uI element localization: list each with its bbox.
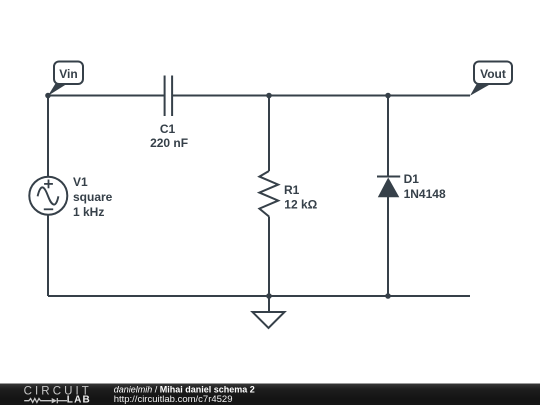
resistor R1 — [259, 171, 278, 217]
svg-text:danielmih / Mihai daniel schem: danielmih / Mihai daniel schema 2 — [114, 384, 255, 394]
voltage source V1 — [29, 177, 67, 215]
svg-text:Vout: Vout — [480, 67, 506, 81]
svg-text:D1: D1 — [404, 172, 420, 186]
wire: D1 top lead — [387, 96, 389, 177]
svg-text:12 kΩ: 12 kΩ — [284, 198, 317, 212]
wire: C1 right plate to Vout corner — [172, 95, 470, 97]
node: R1 top junction — [266, 93, 272, 99]
CircuitLab logo: squiggle resistor + diode — [24, 398, 67, 403]
svg-text:C1: C1 — [160, 122, 176, 136]
svg-text:V1: V1 — [73, 175, 88, 189]
svg-text:Vin: Vin — [59, 67, 77, 81]
capacitor C1 — [165, 76, 173, 117]
svg-text:LAB: LAB — [67, 395, 91, 405]
wire: V1 bottom down to bottom rail — [47, 215, 49, 297]
node: Vin junction — [45, 93, 51, 99]
node: R1 bottom junction — [266, 293, 272, 299]
svg-text:1 kHz: 1 kHz — [73, 205, 104, 219]
net flag Vin — [48, 62, 83, 96]
wire: bottom rail — [48, 295, 470, 297]
svg-text:square: square — [73, 190, 113, 204]
diode D1 — [377, 177, 400, 198]
wire: Vin node down to V1 top — [47, 96, 49, 178]
wire: Vin node to C1 left plate — [48, 95, 165, 97]
svg-text:1N4148: 1N4148 — [404, 187, 446, 201]
node: D1 top junction — [385, 93, 391, 99]
net flag Vout — [470, 62, 512, 96]
ground — [253, 296, 285, 328]
wire: D1 bottom lead — [387, 197, 389, 296]
svg-text:R1: R1 — [284, 183, 300, 197]
wire: R1 bottom lead — [268, 217, 270, 297]
svg-text:http://circuitlab.com/c7r4529: http://circuitlab.com/c7r4529 — [114, 394, 233, 405]
wire: R1 top lead — [268, 96, 270, 172]
node: D1 bottom junction — [385, 293, 391, 299]
svg-text:220 nF: 220 nF — [150, 136, 188, 150]
